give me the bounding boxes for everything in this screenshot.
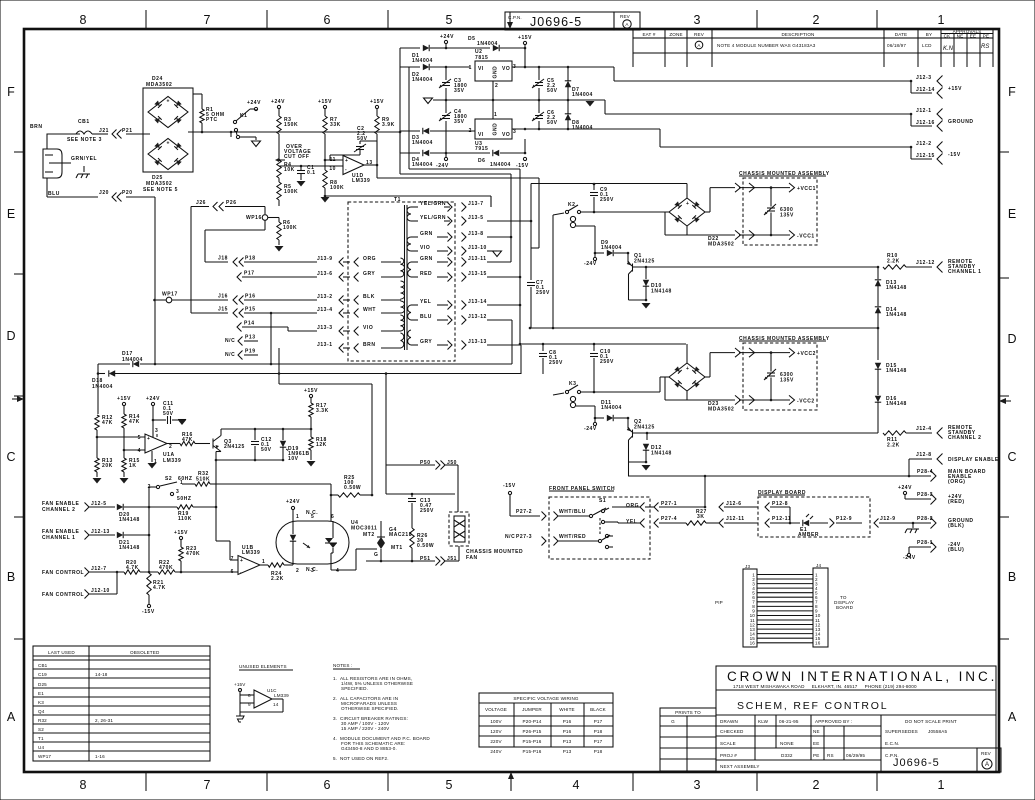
svg-text:P18: P18 bbox=[594, 729, 603, 734]
resistor R14 47K bbox=[122, 414, 126, 428]
svg-text:JUMPER: JUMPER bbox=[522, 707, 542, 712]
wire structure around triac bbox=[380, 560, 382, 561]
+VCC2 arrows bbox=[739, 352, 790, 354]
svg-text:E: E bbox=[1008, 207, 1016, 221]
C.P.N. title box top bbox=[505, 12, 640, 30]
svg-text:J12-16: J12-16 bbox=[916, 120, 935, 126]
svg-text:47K: 47K bbox=[102, 420, 113, 426]
-15V output rail bbox=[512, 128, 660, 130]
svg-text:+15V: +15V bbox=[234, 682, 246, 687]
svg-text:J13-2: J13-2 bbox=[317, 294, 333, 300]
connector J12-6 bbox=[719, 503, 724, 512]
svg-text:C: C bbox=[1007, 450, 1016, 464]
svg-text:P28-4: P28-4 bbox=[917, 469, 933, 475]
resistor R23 470K bbox=[179, 547, 183, 561]
zone numbers bottom bbox=[80, 778, 945, 792]
svg-text:J13-6: J13-6 bbox=[317, 271, 333, 277]
svg-text:J3: J3 bbox=[745, 564, 750, 569]
svg-text:6: 6 bbox=[324, 778, 331, 792]
test point WP16 bbox=[264, 207, 266, 215]
svg-text:50V: 50V bbox=[547, 120, 558, 126]
svg-text:1: 1 bbox=[494, 112, 497, 118]
svg-text:G: G bbox=[671, 719, 675, 724]
resistor R24 2.2K bbox=[260, 564, 268, 566]
svg-text:NE: NE bbox=[813, 729, 820, 734]
svg-text:YEL: YEL bbox=[626, 519, 637, 525]
svg-text:1N4004: 1N4004 bbox=[92, 384, 113, 390]
connector P12-9 bbox=[830, 519, 835, 528]
svg-text:RS: RS bbox=[981, 44, 989, 50]
svg-text:P21: P21 bbox=[122, 128, 133, 134]
svg-text:5: 5 bbox=[446, 778, 453, 792]
svg-text:VOLTAGE: VOLTAGE bbox=[485, 707, 507, 712]
svg-text:SUPERSEDES: SUPERSEDES bbox=[885, 729, 918, 734]
svg-text:C19: C19 bbox=[38, 672, 47, 677]
svg-text:+15V: +15V bbox=[117, 396, 131, 402]
svg-text:RED: RED bbox=[420, 271, 432, 277]
svg-text:FAN: FAN bbox=[466, 555, 478, 561]
wire plug to CB1 bbox=[47, 133, 76, 135]
T1 secondary winding bbox=[407, 207, 411, 214]
unused elements bbox=[234, 664, 293, 722]
resistor R3 150K bbox=[277, 116, 281, 134]
svg-text:PTC: PTC bbox=[206, 117, 218, 123]
resistor R16 47K bbox=[167, 443, 180, 445]
svg-text:1: 1 bbox=[469, 65, 472, 71]
svg-text:1N4004: 1N4004 bbox=[412, 58, 433, 64]
svg-text:7: 7 bbox=[204, 13, 211, 27]
svg-text:16: 16 bbox=[815, 641, 821, 646]
D22 right corner to +VCC1 bbox=[705, 211, 710, 213]
frame zone ticks top bbox=[146, 10, 877, 29]
svg-text:VI: VI bbox=[478, 66, 484, 72]
svg-text:P15-P16: P15-P16 bbox=[523, 749, 542, 754]
svg-text:(RED): (RED) bbox=[948, 499, 965, 505]
AC line plug P1 bbox=[47, 134, 80, 149]
diode D8 1N4004 bbox=[565, 114, 571, 120]
svg-text:3: 3 bbox=[176, 489, 179, 495]
svg-text:LM339: LM339 bbox=[163, 458, 181, 464]
wire output to C2 top bbox=[360, 140, 377, 142]
svg-text:+15V: +15V bbox=[318, 99, 332, 105]
svg-text:P15-P16: P15-P16 bbox=[523, 739, 542, 744]
ground mid rail bbox=[433, 99, 605, 101]
test point WP17 bbox=[153, 299, 156, 302]
svg-text:0.50W: 0.50W bbox=[417, 543, 434, 549]
svg-text:A: A bbox=[985, 762, 989, 768]
connector P12-8 bbox=[765, 503, 770, 512]
svg-text:J12-10: J12-10 bbox=[91, 588, 110, 594]
svg-text:GND: GND bbox=[493, 66, 499, 79]
svg-text:8: 8 bbox=[248, 693, 251, 698]
output bus to right bbox=[376, 174, 378, 178]
resistor R5 100K bbox=[277, 182, 281, 200]
svg-text:DO NOT SCALE PRINT: DO NOT SCALE PRINT bbox=[905, 719, 957, 724]
diode D21 1N4148 bbox=[117, 532, 123, 538]
svg-text:P27-2: P27-2 bbox=[516, 509, 532, 515]
snubber C13 0.47 250V bbox=[385, 465, 387, 494]
svg-text:J12-8: J12-8 bbox=[916, 452, 932, 458]
svg-text:8: 8 bbox=[80, 778, 87, 792]
svg-text:1N4004: 1N4004 bbox=[572, 125, 593, 131]
svg-text:PE: PE bbox=[813, 753, 819, 758]
vertical to P50 bbox=[385, 374, 387, 466]
-15V rail step right bbox=[659, 129, 661, 147]
svg-text:BRN: BRN bbox=[363, 342, 375, 348]
revision table bbox=[633, 29, 993, 67]
transformer T1 box bbox=[348, 202, 455, 361]
diode D1 1N4004 bbox=[400, 47, 420, 49]
svg-text:MOC3011: MOC3011 bbox=[351, 526, 377, 532]
svg-text:CB1: CB1 bbox=[38, 663, 48, 668]
svg-text:DRAWN: DRAWN bbox=[720, 719, 738, 724]
svg-text:T1: T1 bbox=[38, 736, 44, 741]
svg-text:2N4125: 2N4125 bbox=[634, 259, 655, 265]
svg-text:S2: S2 bbox=[38, 727, 44, 732]
last used / obsoleted table bbox=[33, 646, 210, 761]
svg-text:J12-5: J12-5 bbox=[91, 501, 107, 507]
resistor R17 3.3K bbox=[309, 403, 313, 417]
svg-text:2N4125: 2N4125 bbox=[634, 425, 655, 431]
+15V rail step to right bbox=[613, 67, 615, 81]
svg-text:+24V: +24V bbox=[286, 499, 300, 505]
switch S1 bbox=[554, 512, 559, 521]
specific voltage wiring table bbox=[479, 693, 613, 754]
svg-text:NEXT ASSEMBLY: NEXT ASSEMBLY bbox=[720, 764, 760, 769]
svg-text:LCD: LCD bbox=[922, 43, 932, 48]
svg-text:J12-14: J12-14 bbox=[916, 87, 935, 93]
svg-text:47K: 47K bbox=[129, 419, 140, 425]
svg-text:06/18/97: 06/18/97 bbox=[887, 43, 906, 48]
frame zone ticks left/right bbox=[14, 152, 1009, 639]
svg-text:BLU: BLU bbox=[420, 314, 432, 320]
svg-text:CB1: CB1 bbox=[78, 119, 90, 125]
svg-text:UNUSED ELEMENTS: UNUSED ELEMENTS bbox=[239, 664, 287, 669]
wire R25 left to channel bus bbox=[319, 494, 321, 496]
svg-text:1718 WEST MISHAWAKA ROAD E: 1718 WEST MISHAWAKA ROAD ELKHART, IN. 46… bbox=[733, 684, 917, 689]
svg-text:7915: 7915 bbox=[475, 146, 488, 152]
wire J15 junction down bbox=[270, 313, 272, 364]
svg-text:A: A bbox=[7, 710, 16, 724]
svg-text:NONE: NONE bbox=[780, 741, 794, 746]
svg-text:GRN/YEL: GRN/YEL bbox=[71, 156, 97, 162]
svg-text:(BLK): (BLK) bbox=[948, 523, 964, 529]
-VCC2 arrows bbox=[739, 399, 790, 401]
svg-text:1N4148: 1N4148 bbox=[886, 368, 907, 374]
svg-text:P16: P16 bbox=[563, 719, 572, 724]
svg-text:J13-1: J13-1 bbox=[317, 342, 333, 348]
svg-text:SCHEM, REF CONTROL: SCHEM, REF CONTROL bbox=[737, 700, 888, 712]
svg-text:P28-3: P28-3 bbox=[917, 492, 933, 498]
wire P26 jog to J18 bbox=[205, 229, 265, 231]
bottom rail to emitter bbox=[216, 459, 283, 461]
svg-text:CHECKED: CHECKED bbox=[720, 729, 744, 734]
svg-text:135V: 135V bbox=[780, 213, 794, 219]
svg-text:P26: P26 bbox=[226, 200, 237, 206]
svg-text:-VCC1: -VCC1 bbox=[797, 234, 815, 240]
svg-text:5. NOT USED ON REF2.: 5. NOT USED ON REF2. bbox=[333, 756, 389, 761]
svg-text:7: 7 bbox=[204, 778, 211, 792]
svg-text:MAC218: MAC218 bbox=[389, 532, 412, 538]
svg-text:P14: P14 bbox=[244, 321, 255, 327]
svg-text:+15V: +15V bbox=[948, 86, 962, 92]
svg-text:+: + bbox=[167, 98, 170, 104]
diode D2 1N4004 bbox=[400, 66, 420, 68]
svg-text:J12-7: J12-7 bbox=[91, 566, 107, 572]
+15V output rail bbox=[512, 66, 614, 68]
svg-text:NE: NE bbox=[957, 34, 964, 39]
svg-text:3.3K: 3.3K bbox=[316, 408, 329, 414]
svg-text:100V: 100V bbox=[490, 719, 502, 724]
svg-text:FAN CONTROL: FAN CONTROL bbox=[42, 592, 84, 598]
diode D18 1N4004 bbox=[98, 373, 105, 375]
diode D15 1N4148 bbox=[875, 363, 881, 369]
svg-text:NOTE 4 MODULE NUMBER WAS G4318: NOTE 4 MODULE NUMBER WAS G43183A3 bbox=[717, 43, 816, 48]
svg-text:J13-8: J13-8 bbox=[468, 231, 484, 237]
+VCC1 arrows bbox=[739, 187, 790, 189]
svg-text:5: 5 bbox=[311, 514, 314, 520]
capacitor C12 0.1 50V bbox=[254, 429, 256, 440]
svg-text:220V: 220V bbox=[490, 739, 502, 744]
svg-text:P20: P20 bbox=[122, 190, 133, 196]
resistor R18 12K bbox=[309, 437, 313, 450]
svg-text:LM339: LM339 bbox=[274, 693, 289, 698]
T1 core bbox=[404, 205, 406, 350]
svg-text:P17: P17 bbox=[594, 719, 603, 724]
connector P27-4 bbox=[654, 519, 659, 528]
svg-text:35V: 35V bbox=[454, 88, 465, 94]
wire K3 to D23 left corner bbox=[581, 391, 660, 393]
svg-text:N/C: N/C bbox=[225, 352, 235, 358]
svg-text:14: 14 bbox=[273, 702, 279, 707]
svg-text:250V: 250V bbox=[600, 197, 614, 203]
svg-text:OBSOLETED: OBSOLETED bbox=[130, 650, 160, 655]
wire R8 to J13-7 riser bbox=[324, 195, 327, 198]
svg-text:VO: VO bbox=[502, 132, 510, 138]
resistor R21 4.7K bbox=[147, 573, 151, 595]
svg-text:J12-9: J12-9 bbox=[880, 516, 896, 522]
svg-text:+: + bbox=[167, 140, 170, 146]
svg-text:7: 7 bbox=[231, 556, 234, 562]
svg-text:47K: 47K bbox=[182, 437, 193, 443]
title block bbox=[716, 666, 1001, 772]
svg-text:J13-14: J13-14 bbox=[468, 299, 487, 305]
svg-text:E: E bbox=[7, 207, 15, 221]
svg-text:1K: 1K bbox=[129, 463, 137, 469]
capacitor C5 2.2 50V bbox=[535, 82, 543, 84]
svg-text:J12-3: J12-3 bbox=[916, 75, 932, 81]
left AC vertical bbox=[399, 48, 401, 153]
vertical J26 feed to J15 bbox=[190, 207, 192, 314]
bridge rectifier D25 MDA3502 bbox=[148, 138, 188, 169]
diode D10 1N4148 bbox=[645, 266, 648, 269]
svg-text:+24V: +24V bbox=[898, 485, 912, 491]
connector J12-9 bbox=[874, 519, 879, 528]
svg-text:P12-9: P12-9 bbox=[836, 516, 852, 522]
svg-text:-15V: -15V bbox=[503, 483, 516, 489]
svg-text:J12-12: J12-12 bbox=[916, 260, 935, 266]
svg-text:YEL/GRN: YEL/GRN bbox=[420, 201, 446, 207]
svg-text:J16: J16 bbox=[218, 294, 228, 300]
svg-text:J13-10: J13-10 bbox=[468, 245, 487, 251]
frame zone ticks bottom bbox=[146, 772, 877, 791]
svg-text:1N4004: 1N4004 bbox=[412, 162, 433, 168]
svg-text:A: A bbox=[1008, 710, 1017, 724]
svg-text:+24V: +24V bbox=[146, 396, 160, 402]
svg-text:1N4148: 1N4148 bbox=[886, 401, 907, 407]
svg-text:-24V: -24V bbox=[584, 261, 597, 267]
svg-text:P19: P19 bbox=[245, 349, 256, 355]
wire K2 pole feed bbox=[552, 215, 554, 328]
diode D20 1N4148 bbox=[117, 504, 123, 510]
svg-text:WHT: WHT bbox=[363, 307, 376, 313]
S1 mechanical link bbox=[599, 518, 601, 535]
svg-text:J12-4: J12-4 bbox=[916, 426, 932, 432]
svg-text:MT2: MT2 bbox=[363, 532, 375, 538]
connector P28-4 MAIN BOARD ENABLE bbox=[931, 471, 937, 482]
pot arrow R4 bbox=[279, 159, 285, 161]
svg-text:GRY: GRY bbox=[363, 271, 375, 277]
svg-text:+24V: +24V bbox=[271, 99, 285, 105]
svg-text:250V: 250V bbox=[536, 290, 550, 296]
svg-text:VI: VI bbox=[478, 132, 484, 138]
T1 tap YEL / J13-14 bbox=[411, 304, 418, 306]
svg-text:3.9K: 3.9K bbox=[382, 122, 395, 128]
wire bundle lower bbox=[279, 383, 372, 385]
svg-text:EE: EE bbox=[813, 741, 819, 746]
svg-text:P17: P17 bbox=[594, 739, 603, 744]
connector P14 bbox=[237, 323, 242, 332]
svg-text:5: 5 bbox=[138, 435, 141, 441]
svg-text:GRN: GRN bbox=[420, 231, 433, 237]
zone letters left bbox=[6, 85, 15, 724]
svg-text:50HZ: 50HZ bbox=[177, 496, 191, 502]
T1 tap GRN / J13-8 bbox=[411, 236, 418, 238]
svg-text:MDA3502: MDA3502 bbox=[146, 82, 172, 88]
svg-text:B: B bbox=[7, 570, 15, 584]
bus channel mid bbox=[877, 327, 880, 330]
svg-text:1N4004: 1N4004 bbox=[601, 405, 622, 411]
svg-text:-24V: -24V bbox=[584, 426, 597, 432]
svg-text:2.2K: 2.2K bbox=[887, 259, 900, 265]
svg-text:1N4148: 1N4148 bbox=[651, 451, 672, 457]
svg-text:-24V: -24V bbox=[436, 163, 449, 169]
connector J26/P26 bbox=[191, 206, 209, 208]
svg-text:WHT/RED: WHT/RED bbox=[559, 534, 586, 540]
svg-text:LAST USED: LAST USED bbox=[48, 650, 75, 655]
svg-text:GROUND: GROUND bbox=[948, 119, 974, 125]
svg-text:ZONE: ZONE bbox=[669, 32, 682, 37]
T1 tap YEL/GRN / J13-7 bbox=[411, 206, 418, 208]
ground bbox=[236, 716, 244, 722]
transistor Q3 2N4125 bbox=[212, 439, 214, 449]
svg-text:EAT #: EAT # bbox=[642, 32, 655, 37]
svg-text:VIO: VIO bbox=[363, 325, 373, 331]
diode D12 1N4148 bbox=[646, 433, 648, 440]
svg-text:PROJ #: PROJ # bbox=[720, 753, 737, 758]
D23 loop left-bottom bbox=[664, 377, 666, 400]
svg-text:J26: J26 bbox=[196, 200, 206, 206]
svg-text:PE: PE bbox=[983, 34, 989, 39]
svg-text:REV: REV bbox=[620, 14, 631, 19]
svg-text:OTHERWISE SPECIFIED.: OTHERWISE SPECIFIED. bbox=[341, 706, 399, 711]
svg-text:1N4148: 1N4148 bbox=[886, 312, 907, 318]
svg-text:CHANNEL 1: CHANNEL 1 bbox=[948, 269, 981, 275]
svg-text:150K: 150K bbox=[284, 122, 298, 128]
svg-text:SEE NOTE 5: SEE NOTE 5 bbox=[143, 187, 178, 193]
svg-text:2.2K: 2.2K bbox=[271, 576, 284, 582]
svg-text:5: 5 bbox=[446, 13, 453, 27]
svg-text:GRY: GRY bbox=[420, 339, 432, 345]
svg-text:10V: 10V bbox=[288, 456, 299, 462]
svg-text:MT1: MT1 bbox=[391, 545, 403, 551]
svg-text:0.1: 0.1 bbox=[307, 170, 316, 176]
svg-text:SPECIFIED.: SPECIFIED. bbox=[341, 686, 368, 691]
svg-text:4: 4 bbox=[138, 448, 141, 454]
svg-text:14-18: 14-18 bbox=[95, 672, 108, 677]
svg-text:J12-13: J12-13 bbox=[91, 529, 110, 535]
svg-text:D332: D332 bbox=[781, 753, 793, 758]
svg-text:510K: 510K bbox=[196, 477, 210, 483]
wire display enable bus bbox=[628, 475, 931, 477]
T1 tap VIO / J13-10 bbox=[411, 250, 418, 252]
wires to U1D bbox=[325, 159, 343, 161]
svg-text:VIO: VIO bbox=[420, 245, 430, 251]
svg-text:2, 26-31: 2, 26-31 bbox=[95, 718, 113, 723]
svg-text:PRINTS TO: PRINTS TO bbox=[675, 710, 701, 715]
diode D16 1N4148 bbox=[875, 396, 881, 402]
svg-text:CROWN INTERNATIONAL, INC.: CROWN INTERNATIONAL, INC. bbox=[727, 669, 997, 684]
svg-text:BLU: BLU bbox=[48, 191, 60, 197]
svg-text:J13-3: J13-3 bbox=[317, 325, 333, 331]
svg-text:J12-1: J12-1 bbox=[916, 108, 932, 114]
LED E1 AMBER bbox=[803, 520, 809, 526]
svg-text:100K: 100K bbox=[330, 185, 344, 191]
resistor R4 10K bbox=[277, 160, 281, 178]
wire J13-1 down bbox=[278, 348, 280, 384]
T1 tap BLU / J13-12 bbox=[411, 319, 418, 321]
svg-text:110K: 110K bbox=[178, 516, 192, 522]
wire K3 coil to Q2 base column bbox=[576, 405, 595, 407]
svg-text:YEL: YEL bbox=[420, 299, 431, 305]
svg-text:SPECIFIC VOLTAGE WIRING: SPECIFIC VOLTAGE WIRING bbox=[513, 696, 579, 701]
svg-text:1: 1 bbox=[938, 13, 945, 27]
svg-text:P17: P17 bbox=[244, 271, 255, 277]
svg-text:J13-7: J13-7 bbox=[468, 201, 484, 207]
wire K2 coil to Q1 base column bbox=[576, 225, 595, 227]
resistor R7 33K bbox=[323, 116, 327, 134]
svg-text:+15V: +15V bbox=[174, 530, 188, 536]
T1 tap YEL/GRN / J13-5 bbox=[411, 220, 418, 222]
svg-text:J21: J21 bbox=[99, 128, 109, 134]
svg-text:(ORG): (ORG) bbox=[948, 479, 965, 485]
svg-text:T1: T1 bbox=[394, 197, 401, 203]
op-amp U1A LM339 bbox=[145, 434, 167, 453]
svg-text:P12-11: P12-11 bbox=[772, 516, 791, 522]
svg-text:E1: E1 bbox=[38, 691, 44, 696]
svg-text:D6: D6 bbox=[478, 158, 486, 164]
svg-text:470K: 470K bbox=[159, 565, 173, 571]
wires to op-amp U1A bbox=[96, 430, 98, 437]
svg-text:1N4148: 1N4148 bbox=[119, 545, 140, 551]
svg-text:7815: 7815 bbox=[475, 55, 488, 61]
svg-text:1-16: 1-16 bbox=[95, 754, 105, 759]
svg-text:F: F bbox=[1008, 85, 1016, 99]
svg-text:DISPLAY ENABLE: DISPLAY ENABLE bbox=[948, 457, 999, 463]
svg-text:1N4004: 1N4004 bbox=[601, 245, 622, 251]
svg-text:P13: P13 bbox=[245, 335, 256, 341]
wire top feed to D22 bbox=[686, 184, 688, 199]
